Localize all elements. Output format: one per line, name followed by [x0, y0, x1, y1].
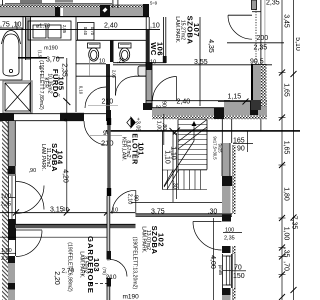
svg-text:KER,LAM.: KER,LAM.	[121, 137, 127, 161]
svg-text:210: 210	[106, 274, 117, 281]
svg-text:210: 210	[101, 138, 114, 147]
svg-text:LAM.PARK.: LAM.PARK.	[79, 251, 85, 278]
svg-text:1,00: 1,00	[156, 121, 162, 132]
svg-text:⌀1,70: ⌀1,70	[36, 24, 50, 30]
svg-text:3,55: 3,55	[194, 59, 208, 66]
svg-text:,75 ,10: ,75 ,10	[0, 22, 22, 29]
svg-text:1,00: 1,00	[283, 227, 290, 241]
svg-text:1,15: 1,15	[228, 94, 242, 101]
svg-text:10: 10	[6, 169, 12, 175]
svg-text:90: 90	[133, 195, 139, 201]
svg-text:2,20: 2,20	[53, 271, 60, 285]
svg-text:WC: WC	[149, 42, 158, 56]
svg-text:90: 90	[161, 101, 167, 107]
svg-text:2,05: 2,05	[112, 70, 117, 79]
svg-text:210: 210	[102, 99, 114, 106]
svg-text:1,65: 1,65	[283, 83, 290, 97]
svg-text:1,10: 1,10	[170, 146, 177, 160]
svg-text:,35: ,35	[283, 248, 290, 258]
svg-text:LAM.PARK.: LAM.PARK.	[141, 226, 147, 253]
svg-text:m190: m190	[123, 294, 140, 300]
svg-text:,80: ,80	[161, 123, 167, 131]
svg-text:2,35: 2,35	[266, 0, 280, 7]
svg-text:7,35: 7,35	[291, 216, 298, 230]
svg-text:1,65: 1,65	[283, 141, 290, 155]
svg-text:200: 200	[257, 35, 269, 42]
svg-text:1,00: 1,00	[1, 194, 12, 200]
svg-text:2,40: 2,40	[177, 98, 191, 105]
svg-text:150: 150	[233, 273, 245, 280]
svg-text:5,10: 5,10	[294, 37, 300, 51]
svg-text:LAM.PARK.: LAM.PARK.	[40, 144, 46, 171]
svg-text:,70: ,70	[283, 261, 290, 271]
svg-text:,90: ,90	[29, 168, 37, 174]
svg-text:(190FELETT:6,98m2): (190FELETT:6,98m2)	[67, 242, 73, 292]
svg-text:1,80: 1,80	[283, 187, 290, 201]
svg-text:m190: m190	[44, 46, 58, 52]
svg-text:LAM.PARK.: LAM.PARK.	[174, 16, 180, 43]
svg-text:4,00: 4,00	[209, 255, 216, 269]
svg-text:0,70: 0,70	[90, 27, 95, 36]
svg-text:,10: ,10	[111, 208, 119, 214]
svg-text:9x17,5=30,5: 9x17,5=30,5	[213, 136, 218, 160]
svg-text:,10: ,10	[61, 207, 69, 213]
svg-text:0,10: 0,10	[79, 86, 84, 95]
svg-text:2,35: 2,35	[1, 202, 12, 208]
svg-text:+3,05: +3,05	[135, 118, 141, 132]
svg-text:,10: ,10	[150, 23, 160, 30]
svg-text:5=9: 5=9	[150, 1, 158, 6]
svg-text:0,40: 0,40	[83, 27, 88, 36]
svg-text:,30: ,30	[172, 181, 178, 189]
svg-text:90: 90	[237, 146, 245, 153]
svg-text:(190FELETT:13,20m2): (190FELETT:13,20m2)	[132, 237, 138, 290]
svg-text:2,40: 2,40	[104, 23, 118, 30]
svg-text:2,35: 2,35	[61, 63, 68, 77]
svg-text:4,20: 4,20	[62, 169, 69, 183]
svg-text:3,45: 3,45	[283, 14, 290, 28]
svg-text:SZOBA: SZOBA	[185, 16, 194, 45]
svg-text:,25: ,25	[117, 58, 125, 64]
svg-text:pm85: pm85	[218, 265, 223, 276]
svg-text:4,35: 4,35	[207, 39, 214, 53]
svg-text:2,35: 2,35	[254, 45, 268, 52]
svg-text:2,35: 2,35	[224, 236, 235, 242]
svg-text:1,10: 1,10	[164, 150, 171, 164]
svg-text:(190FELETT:7,89m2): (190FELETT:7,89m2)	[38, 60, 44, 110]
